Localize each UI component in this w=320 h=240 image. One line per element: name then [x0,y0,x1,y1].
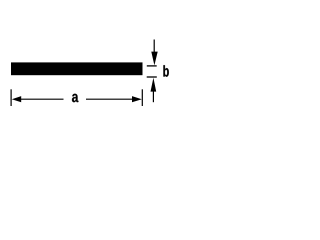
dimension b: upper arrow shaft [153,40,155,53]
dimension b: upper arrowhead [151,52,157,66]
dimension a: left arrowhead [12,96,21,102]
flat bar profile (cross-section) [11,62,143,75]
dimension a: right arrowhead [132,96,142,102]
label b [163,65,168,77]
dimension b: lower tick [147,76,157,78]
dimension b: lower arrowhead [151,78,157,92]
dimension b: lower arrow shaft [152,91,154,103]
label a [72,94,78,102]
dimension a: right line segment [86,98,132,100]
dimension a: right end tick [141,89,143,106]
dimension a: left line segment [21,98,64,100]
dimension a: left end tick [10,89,12,106]
dimension b: upper tick [147,65,157,67]
